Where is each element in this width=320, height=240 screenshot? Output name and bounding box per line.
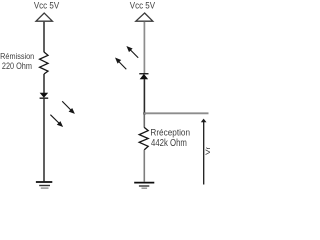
wire: junction to output (gray horizontal) xyxy=(144,112,209,114)
svg-text:Vcc 5V: Vcc 5V xyxy=(34,0,60,10)
wire right: Vcc to photodiode (gray) xyxy=(143,22,145,74)
label Rémission 220 Ohm xyxy=(0,52,34,72)
svg-text:Vcc 5V: Vcc 5V xyxy=(130,0,156,10)
svg-text:220 Ohm: 220 Ohm xyxy=(2,61,32,71)
wire left: Vcc to resistor xyxy=(43,22,45,52)
LED D1 (emitting diode) xyxy=(40,93,49,99)
light emission arrow 2 xyxy=(50,115,63,127)
wire right: junction to resistor (gray) xyxy=(143,114,145,128)
light emission arrow 1 xyxy=(62,101,75,114)
wire right: resistor to ground (gray) xyxy=(143,150,145,182)
power symbol Vcc left xyxy=(36,13,52,21)
wire left: LED to ground xyxy=(43,99,45,182)
light reception arrow 2 xyxy=(115,58,126,70)
label Rréception 442k Ohm xyxy=(150,127,190,148)
resistor R reception zigzag xyxy=(139,127,148,149)
output voltage arrow Vr xyxy=(201,119,207,185)
svg-text:Rréception: Rréception xyxy=(150,127,190,138)
ground right xyxy=(134,183,154,189)
node junction xyxy=(143,112,145,114)
svg-text:442k Ohm: 442k Ohm xyxy=(151,137,187,148)
power symbol Vcc right xyxy=(136,13,153,21)
wire left: resistor to LED xyxy=(43,74,45,93)
svg-text:Vr: Vr xyxy=(204,146,212,155)
svg-text:Rémission: Rémission xyxy=(0,52,34,61)
wire right: photodiode to junction xyxy=(143,79,145,114)
ground left xyxy=(36,182,52,188)
light reception arrow 1 xyxy=(126,46,138,58)
photodiode D2 xyxy=(139,73,148,79)
resistor R emission zigzag xyxy=(40,52,48,74)
